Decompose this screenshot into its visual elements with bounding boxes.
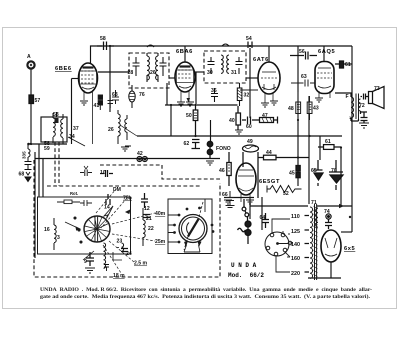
svg-text:335: 335 — [22, 151, 27, 159]
svg-text:32: 32 — [244, 93, 250, 99]
svg-text:6AT6: 6AT6 — [253, 57, 269, 63]
svg-text:73: 73 — [374, 86, 380, 92]
svg-text:30: 30 — [207, 70, 213, 76]
svg-text:3: 3 — [57, 235, 60, 241]
svg-text:43: 43 — [313, 106, 319, 112]
svg-text:gate ad onde corte. Media fre: gate ad onde corte. Media frequenza 467 … — [40, 293, 371, 300]
svg-text:65: 65 — [311, 168, 317, 174]
svg-text:24: 24 — [126, 251, 132, 257]
svg-text:54: 54 — [246, 36, 252, 42]
svg-text:22: 22 — [148, 226, 154, 232]
svg-text:12: 12 — [144, 206, 150, 212]
svg-text:75b: 75b — [123, 196, 132, 202]
svg-text:6E5GT: 6E5GT — [259, 179, 280, 185]
svg-text:23: 23 — [117, 239, 123, 245]
svg-text:25m: 25m — [155, 239, 166, 245]
svg-text:68: 68 — [19, 172, 25, 178]
svg-text:36: 36 — [211, 88, 217, 94]
svg-text:41: 41 — [94, 103, 100, 109]
svg-text:42: 42 — [137, 151, 143, 157]
svg-text:70: 70 — [331, 168, 337, 174]
svg-text:48: 48 — [288, 106, 294, 112]
svg-text:45: 45 — [289, 171, 295, 177]
svg-text:53: 53 — [53, 112, 59, 118]
svg-text:9: 9 — [84, 259, 87, 265]
svg-text:58: 58 — [100, 36, 106, 42]
svg-text:37: 37 — [73, 126, 79, 132]
svg-text:6BE6: 6BE6 — [55, 66, 72, 72]
svg-text:21: 21 — [146, 216, 152, 222]
svg-text:U N D A: U N D A — [231, 262, 257, 269]
svg-text:125: 125 — [291, 229, 300, 235]
svg-text:18 m: 18 m — [113, 273, 125, 279]
svg-text:63: 63 — [301, 74, 307, 80]
svg-text:16: 16 — [44, 227, 50, 233]
svg-text:A: A — [27, 54, 31, 60]
svg-text:66: 66 — [222, 192, 228, 198]
svg-text:34: 34 — [69, 134, 75, 140]
svg-text:28: 28 — [128, 70, 134, 76]
svg-text:F: F — [346, 94, 349, 100]
svg-text:6x5: 6x5 — [344, 246, 355, 252]
svg-text:76: 76 — [139, 92, 145, 98]
svg-text:61: 61 — [325, 139, 331, 145]
svg-text:110: 110 — [291, 214, 300, 220]
svg-text:UNDA RADIO . Mod. R 66/2.: UNDA RADIO . Mod. R 66/2. Ricevitore con… — [40, 287, 372, 293]
svg-text:40m: 40m — [155, 211, 166, 217]
svg-text:49: 49 — [247, 139, 253, 145]
svg-text:72: 72 — [359, 103, 365, 109]
svg-text:44: 44 — [266, 150, 272, 156]
svg-text:59: 59 — [44, 146, 50, 152]
svg-text:14: 14 — [104, 205, 110, 211]
svg-text:56: 56 — [299, 49, 305, 55]
svg-text:46: 46 — [219, 168, 225, 174]
svg-text:140: 140 — [291, 242, 300, 248]
svg-text:220: 220 — [291, 271, 300, 277]
svg-text:6BA6: 6BA6 — [176, 49, 193, 55]
svg-text:FONO: FONO — [216, 146, 231, 152]
svg-text:6AQ5: 6AQ5 — [318, 49, 335, 55]
svg-text:60: 60 — [246, 124, 252, 130]
svg-text:2.5 m: 2.5 m — [134, 261, 147, 267]
svg-text:47: 47 — [262, 113, 268, 119]
svg-text:74: 74 — [324, 209, 330, 215]
svg-text:61: 61 — [345, 62, 351, 68]
svg-text:52: 52 — [283, 191, 289, 197]
svg-text:57: 57 — [35, 98, 41, 104]
svg-text:64: 64 — [260, 215, 266, 221]
svg-text:71: 71 — [311, 200, 317, 206]
svg-text:Mod. 66/2: Mod. 66/2 — [228, 272, 264, 279]
svg-text:50: 50 — [186, 113, 192, 119]
svg-text:31: 31 — [231, 70, 237, 76]
svg-text:Rot.: Rot. — [70, 191, 78, 196]
svg-text:63: 63 — [112, 92, 118, 98]
svg-text:26: 26 — [150, 70, 156, 76]
svg-text:DM: DM — [113, 187, 121, 193]
svg-text:62: 62 — [184, 141, 190, 147]
svg-text:26: 26 — [108, 127, 114, 133]
svg-text:160: 160 — [291, 256, 300, 262]
svg-text:10: 10 — [100, 170, 106, 176]
